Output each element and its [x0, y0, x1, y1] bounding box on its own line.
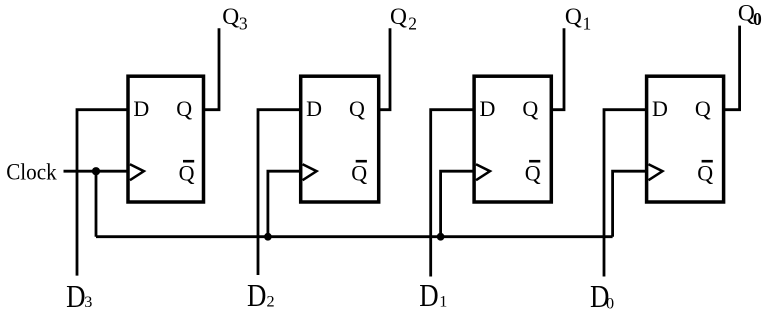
wire: U3.Q up to Q1 [551, 28, 564, 110]
d-flip-flop U4 body [647, 76, 724, 202]
svg-text:D: D [480, 96, 496, 121]
svg-text:Q: Q [565, 4, 582, 30]
junction dot: clock node at U1 [92, 167, 100, 175]
d-flip-flop U2 body [301, 76, 379, 202]
U3 clock pin triangle [476, 164, 490, 180]
svg-text:D: D [66, 279, 85, 314]
svg-text:1: 1 [439, 292, 447, 310]
U2 clock pin triangle [303, 164, 317, 180]
d-flip-flop U3 body [474, 76, 551, 202]
svg-text:0: 0 [606, 294, 614, 312]
wire: D3 input to U1.D [77, 110, 128, 276]
junction dot: clock bus to U2 [264, 233, 272, 241]
wire: U1.Q up to Q3 [204, 28, 220, 109]
svg-text:3: 3 [84, 293, 92, 311]
svg-text:Q: Q [351, 160, 367, 185]
U1 clock pin triangle [130, 164, 144, 180]
svg-text:Q: Q [176, 96, 192, 121]
d-flip-flop U1 body [128, 76, 204, 202]
svg-text:Q: Q [525, 160, 541, 185]
svg-text:D: D [133, 96, 149, 121]
svg-text:D: D [419, 278, 438, 313]
svg-text:Q: Q [179, 160, 195, 185]
svg-text:2: 2 [267, 292, 275, 310]
svg-text:Q: Q [695, 96, 711, 121]
svg-text:Q: Q [697, 160, 713, 185]
svg-text:Q: Q [222, 4, 239, 30]
svg-text:2: 2 [408, 14, 417, 34]
svg-text:Q: Q [522, 96, 538, 121]
wire: D0 input to U4.D [604, 110, 647, 277]
svg-text:D: D [247, 278, 266, 313]
wire: clock drop from dot to bus [95, 171, 98, 237]
U4 clock pin triangle [649, 164, 663, 180]
svg-text:0: 0 [753, 9, 762, 29]
svg-text:Clock: Clock [6, 160, 57, 185]
svg-text:3: 3 [239, 14, 248, 34]
wire: clock riser bus to U4 clk [613, 171, 648, 237]
svg-text:D: D [306, 96, 322, 121]
wire: U2.Q up to Q2 [379, 28, 390, 109]
junction dot: clock bus to U3 [437, 233, 445, 241]
svg-text:1: 1 [583, 14, 592, 34]
wire: D2 input to U2.D [258, 110, 301, 275]
svg-text:D: D [652, 96, 668, 121]
wire: Clock input line [64, 170, 129, 173]
wire: clock bus [96, 235, 613, 238]
svg-text:Q: Q [390, 4, 407, 30]
wire: clock riser bus to U2 clk [268, 171, 302, 237]
svg-text:Q: Q [349, 96, 365, 121]
wire: clock riser bus to U3 clk [441, 171, 476, 237]
wire: U4.Q up to Q0 [724, 26, 740, 110]
wire: D1 input to U3.D [431, 110, 474, 277]
